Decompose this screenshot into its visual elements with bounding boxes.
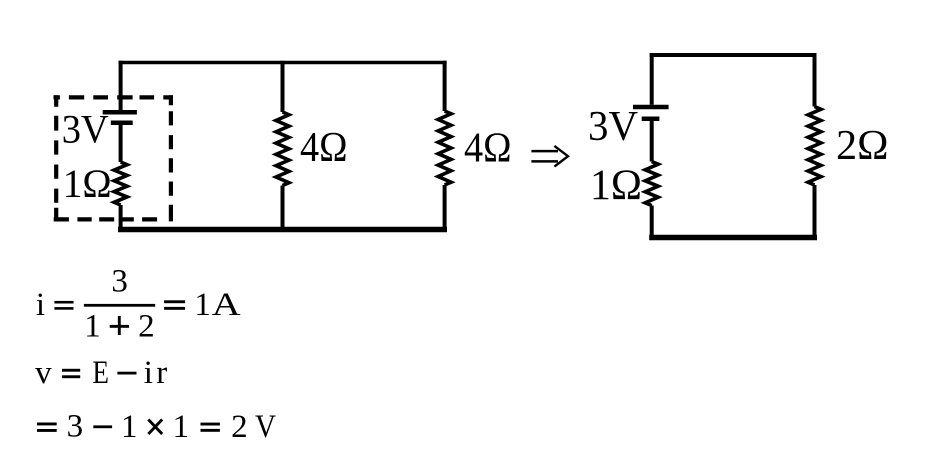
wire right-circuit right branch upper bbox=[813, 53, 817, 107]
svg-text:ir: ir bbox=[144, 355, 168, 391]
svg-text:4Ω: 4Ω bbox=[300, 125, 348, 171]
wire R1 to bottom bbox=[119, 205, 123, 232]
svg-text:E: E bbox=[92, 355, 109, 391]
dashed box around source: right edge dashes bbox=[169, 95, 173, 221]
equation line 1: second equals sign bbox=[164, 300, 185, 303]
svg-text:A: A bbox=[212, 285, 241, 322]
svg-text:3V: 3V bbox=[62, 107, 109, 152]
arrow implies upper shaft bbox=[531, 150, 558, 153]
battery B1 3V short plate bbox=[111, 120, 133, 125]
arrow implies lower shaft bbox=[531, 160, 558, 163]
equation line 1: equals sign bbox=[54, 301, 73, 304]
wire middle branch lower bbox=[281, 186, 285, 232]
svg-text:2: 2 bbox=[138, 308, 155, 344]
resistor R1 1ohm zigzag bbox=[114, 162, 127, 205]
svg-text:3V: 3V bbox=[588, 104, 638, 150]
svg-text:3: 3 bbox=[111, 264, 128, 300]
equation line 3: equals sign bbox=[37, 423, 57, 426]
wire top of left circuit bbox=[119, 61, 447, 65]
resistor R5 2ohm zigzag bbox=[808, 107, 821, 186]
wire battery to resistor R1 bbox=[119, 125, 123, 162]
wire right branch lower bbox=[443, 185, 447, 232]
svg-text:V: V bbox=[255, 409, 276, 445]
dashed box around source: top edge dashes bbox=[54, 95, 173, 99]
resistor R3 4ohm right zigzag bbox=[438, 111, 451, 185]
svg-text:2Ω: 2Ω bbox=[836, 123, 889, 169]
svg-text:1Ω: 1Ω bbox=[63, 161, 112, 206]
wire right-circuit left branch upper bbox=[650, 53, 654, 105]
resistor R4 1ohm right-circuit zigzag bbox=[645, 162, 658, 206]
wire middle branch upper bbox=[281, 61, 285, 112]
wire left branch upper bbox=[119, 61, 123, 110]
equation line 2: equals sign bbox=[62, 369, 80, 372]
arrow implies head bbox=[554, 146, 568, 167]
dashed box around source: left edge dashes bbox=[54, 95, 58, 221]
svg-text:i: i bbox=[36, 287, 45, 323]
svg-text:4Ω: 4Ω bbox=[464, 125, 512, 171]
svg-text:1Ω: 1Ω bbox=[590, 162, 642, 209]
battery B2 3V long plate bbox=[633, 105, 669, 110]
resistor R2 4ohm middle zigzag bbox=[276, 112, 289, 186]
equation line 3: second equals sign bbox=[201, 423, 220, 426]
wire bottom of left circuit bbox=[118, 227, 447, 233]
wire battery B2 to resistor bbox=[650, 121, 654, 162]
equation line 1: denominator plus sign bbox=[110, 325, 129, 328]
battery B1 3V long plate bbox=[103, 110, 137, 115]
wire R4 to bottom bbox=[650, 206, 654, 241]
svg-text:3: 3 bbox=[67, 409, 84, 445]
svg-text:1: 1 bbox=[173, 409, 190, 445]
battery B2 3V short plate bbox=[642, 116, 660, 121]
wire bottom of right circuit bbox=[649, 235, 817, 241]
equation line 2: minus sign bbox=[117, 372, 136, 375]
wire right branch upper bbox=[443, 61, 447, 111]
equation line 3: minus sign bbox=[93, 425, 112, 428]
svg-text:2: 2 bbox=[231, 409, 248, 445]
svg-text:1: 1 bbox=[84, 308, 101, 344]
wire R5 to bottom bbox=[813, 185, 817, 240]
wire top of right circuit bbox=[650, 53, 817, 57]
svg-text:1: 1 bbox=[194, 287, 211, 323]
equation line 3: times sign bbox=[148, 419, 162, 434]
dashed box around source: bottom edge dashes bbox=[54, 217, 157, 221]
svg-text:v: v bbox=[35, 355, 52, 391]
svg-text:1: 1 bbox=[121, 409, 138, 445]
equation line 1: fraction bar bbox=[84, 304, 155, 307]
